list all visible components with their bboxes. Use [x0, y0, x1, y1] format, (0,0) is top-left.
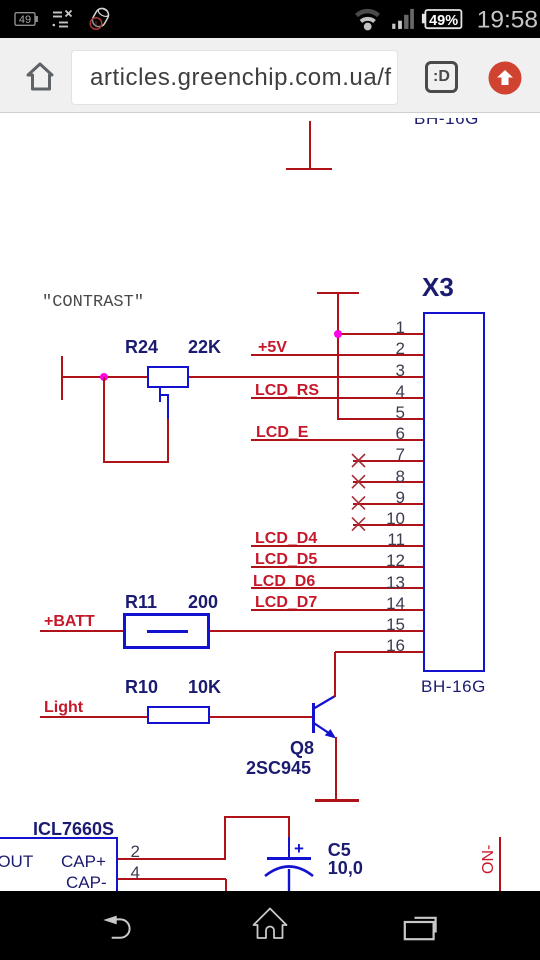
- svg-text:49%: 49%: [429, 13, 458, 29]
- svg-text:!: !: [95, 19, 98, 29]
- svg-text:49: 49: [19, 14, 31, 26]
- svg-text:19:58: 19:58: [477, 7, 538, 34]
